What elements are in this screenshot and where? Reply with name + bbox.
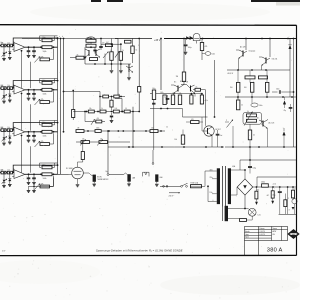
transistor Q32 circle: [204, 126, 214, 136]
trimmer P1: [35, 56, 41, 62]
diode D11 input clamp: [9, 46, 11, 52]
border frame right: [296, 25, 298, 255]
wire q33 emitter down: [238, 59, 240, 71]
wire row y142: [76, 141, 130, 143]
wire row y121.5: [85, 121, 105, 123]
resistor R60 vertical: [81, 152, 84, 160]
wire tube cathode: [77, 179, 79, 184]
node cluster wires: [84, 57, 86, 59]
resistor R34c vertical: [110, 100, 113, 107]
resistor R20 680: [86, 39, 96, 42]
wire cascade stage 3 a: [21, 135, 23, 172]
wire jack row: [109, 174, 124, 176]
node rail97: [237, 96, 239, 98]
wire row y93.7: [150, 93, 171, 95]
svg-text:4k7: 4k7: [106, 42, 109, 44]
trimmer arrow stage 3: [2, 136, 8, 141]
svg-text:100: 100: [244, 87, 247, 89]
node dome out: [202, 38, 204, 40]
svg-text:Ge (pnp): Ge (pnp): [249, 51, 256, 53]
op-amp U4: [14, 170, 25, 179]
wire bus C join stage3: [63, 131, 65, 133]
diode D31: [190, 36, 193, 40]
svg-text:220: 220: [87, 43, 90, 45]
wire feedback loop stage 1: [40, 36, 55, 40]
jack J3 mains lab: [155, 174, 158, 181]
capacitor C22: [104, 54, 106, 65]
resistor R28: [125, 40, 132, 43]
potentiometer block P30: [243, 113, 262, 125]
ground stage 2 input: [8, 99, 12, 101]
resistor R23: [106, 44, 113, 47]
border frame bottom: [0, 254, 297, 256]
trimmer arrow stage 4: [2, 179, 8, 184]
capacitor C32: [33, 132, 35, 135]
capacitor C42: [33, 174, 35, 177]
capacitor C36 100n ellipse: [205, 52, 211, 56]
svg-text:100: 100: [174, 139, 177, 141]
svg-text:1k: 1k: [294, 188, 296, 190]
trimmer P4: [35, 184, 41, 190]
wire feedback top stage 2: [13, 81, 57, 89]
resistor R41 vertical 47k: [200, 43, 203, 51]
wire row y108: [150, 108, 183, 110]
wire q34 emitter down: [261, 66, 263, 71]
wire stage4 output to tube: [58, 173, 69, 175]
svg-text:Rgk: Rgk: [43, 80, 46, 82]
capacitor C33 ellipse 100n: [251, 103, 258, 107]
wire cascade stage 3 b: [30, 146, 32, 172]
wire feedback bus B: [60, 39, 62, 175]
capacitor C31 1u: [167, 95, 169, 98]
trimmer P21: [115, 51, 120, 58]
wire input net stage 1: [0, 45, 14, 47]
svg-text:10k: 10k: [7, 127, 10, 129]
op-amp U3: [14, 127, 25, 136]
svg-text:1k: 1k: [77, 55, 79, 57]
svg-text:10k: 10k: [89, 108, 92, 110]
svg-text:b: b: [62, 36, 63, 38]
transformer T1 secondary winding: [228, 168, 231, 204]
svg-text:Uy: Uy: [0, 127, 2, 129]
svg-text:10k: 10k: [7, 170, 10, 172]
wire rail y214: [279, 213, 297, 215]
svg-text:47k: 47k: [41, 184, 44, 186]
resistor R55: [247, 114, 257, 117]
diode D30: [186, 36, 189, 40]
resistor R33: [100, 110, 106, 113]
resistor R52 vertical 100: [251, 82, 254, 92]
fuse F1 0.5A: [191, 185, 202, 188]
svg-text:mV: mV: [2, 251, 6, 253]
resistor R34 series: [42, 130, 52, 133]
svg-text:6.01.74: 6.01.74: [260, 234, 265, 236]
node row96: [111, 96, 113, 98]
resistor R51 vertical 150: [237, 82, 240, 92]
wire drop x85: [84, 112, 86, 122]
wire q35 emitter down: [267, 129, 269, 148]
trimmer P2: [35, 99, 41, 105]
capacitor C21: [28, 90, 30, 93]
svg-text:2.01.74: 2.01.74: [260, 231, 265, 233]
svg-text:Uy: Uy: [0, 85, 2, 87]
ground stage 4 clamp: [2, 185, 6, 187]
svg-text:P: P: [226, 120, 227, 122]
resistor R25 vertical: [119, 52, 122, 61]
scan artifact bar top-left: [91, 0, 101, 2]
ground jack J2: [128, 182, 130, 184]
ground stage 1 clamp: [2, 58, 6, 60]
transformer T1 taps labels: [212, 178, 217, 180]
transformer T1 core: [222, 166, 224, 207]
svg-text:47n: 47n: [102, 42, 105, 44]
wire feedback top stage 3: [13, 123, 57, 131]
node rail147: [128, 146, 130, 148]
wire cascade stage 1 b: [30, 62, 32, 88]
resistor R53 vertical: [266, 82, 269, 92]
resistor R46 vertical: [171, 95, 174, 105]
svg-text:BC 107: BC 107: [180, 81, 185, 83]
resistor R54 1k vertical: [237, 100, 240, 110]
ground ladder: [110, 119, 114, 121]
svg-text:150: 150: [230, 87, 233, 89]
resistor R22 1k: [76, 56, 84, 59]
ground tube: [76, 184, 80, 186]
probe bracket symbol: [143, 172, 149, 176]
wire drop x132.5: [132, 39, 134, 47]
svg-text:10k: 10k: [7, 43, 10, 45]
resistor R36: [40, 143, 50, 146]
diode D32 input clamp: [3, 130, 5, 137]
title block dividers: [258, 227, 260, 256]
wire x240 secondary to rail160: [239, 160, 241, 170]
ground stage 3 b: [32, 139, 36, 141]
resistor R56: [247, 119, 257, 122]
wire curl over R20: [87, 37, 95, 39]
svg-text:Ug: Ug: [118, 94, 120, 96]
wire top rail right half: [115, 38, 152, 40]
resistor R46: [40, 185, 50, 188]
svg-text:10n: 10n: [220, 135, 223, 137]
resistor R41: [1, 171, 6, 174]
svg-text:+13v: +13v: [273, 183, 277, 185]
resistor R21: [1, 87, 6, 90]
diode D31 input clamp: [9, 130, 11, 136]
svg-text:100µ: 100µ: [152, 88, 156, 90]
capacitor C35 47u: [290, 104, 292, 107]
resistor R44 series: [42, 173, 52, 176]
node row131: [87, 130, 89, 132]
logo diamond: [288, 229, 300, 238]
svg-text:1k: 1k: [110, 50, 112, 52]
svg-text:100: 100: [115, 108, 118, 110]
capacitor C34 100n to frame: [272, 91, 278, 93]
node feedback stage 3: [55, 120, 58, 122]
svg-text:a: a: [59, 36, 60, 38]
capacitor C41: [28, 174, 30, 177]
resistor R47 vertical: [178, 95, 181, 105]
svg-text:110v: 110v: [210, 192, 213, 194]
title block outline: [245, 227, 288, 241]
ground stage 1 b: [32, 55, 36, 57]
svg-text:1k: 1k: [196, 87, 198, 89]
svg-text:230 V~: 230 V~: [169, 195, 175, 197]
svg-text:680: 680: [257, 190, 260, 192]
wire cascade stage 2 a: [21, 93, 23, 130]
resistor R62 150: [240, 219, 247, 222]
capacitor C40 100u: [249, 160, 251, 166]
svg-text:100k: 100k: [43, 135, 47, 137]
label 230V arrow: [169, 192, 180, 194]
resistor R11: [1, 44, 6, 47]
resistor R31: [1, 129, 6, 132]
capacitor C32 10n: [217, 130, 219, 134]
wire output net stage 2: [25, 89, 58, 91]
svg-text:100n: 100n: [259, 105, 263, 107]
diode D40: [256, 199, 258, 202]
node feedback stage 2: [55, 78, 58, 80]
wire tube anode: [77, 162, 79, 167]
resistor R32: [7, 129, 12, 132]
svg-text:RC 6080: RC 6080: [66, 168, 73, 170]
svg-text:BC107: BC107: [216, 129, 221, 131]
ground stage 4 a: [27, 182, 31, 184]
resistor R40: [99, 141, 108, 144]
wire mains stub: [153, 100, 155, 151]
trimmer arrow stage 2: [2, 94, 8, 99]
wire row y96.5: [100, 96, 125, 98]
svg-text:Uy: Uy: [0, 169, 2, 171]
svg-text:Name: Name: [273, 228, 278, 230]
ground jack J1: [93, 182, 95, 184]
node Rg: [107, 174, 109, 176]
transistor Q35 AC128: [262, 121, 264, 127]
svg-text:380 A: 380 A: [267, 247, 283, 253]
svg-text:+: +: [253, 80, 254, 82]
wire drop x140 long: [138, 39, 140, 87]
resistor R31: [114, 95, 119, 98]
wire feedback bus C: [63, 39, 65, 132]
ground stage 2 b: [32, 97, 36, 99]
wire secondary bottom tap: [231, 194, 237, 196]
resistor R67 vertical: [292, 190, 295, 198]
resistor R24 series: [42, 88, 52, 91]
wire pot drop: [232, 126, 234, 147]
resistor R49 100 vertical: [181, 135, 184, 144]
svg-text:GD 241: GD 241: [272, 59, 278, 61]
svg-text:100µ: 100µ: [188, 47, 192, 49]
resistor R12: [7, 44, 12, 47]
wire x222 drop: [221, 117, 223, 130]
node rail187: [256, 186, 258, 188]
ground cluster b: [120, 60, 122, 70]
resistor R26b vertical: [138, 87, 141, 93]
resistor R47c vertical: [200, 95, 203, 104]
svg-text:100k: 100k: [43, 51, 47, 53]
svg-text:10: 10: [125, 108, 127, 110]
ground stage 4 input: [8, 184, 12, 186]
svg-text:5k: 5k: [247, 111, 249, 113]
wire drop x118: [117, 39, 119, 97]
svg-text:Spannungs-Dekaden mit Röhrenvo: Spannungs-Dekaden mit Röhrenvoltmeter R₁…: [96, 249, 183, 253]
resistor R22: [7, 87, 12, 90]
ground stage 1 a: [27, 55, 31, 57]
resistor R34a: [113, 110, 119, 113]
transistor Q30 diff pair left: [177, 86, 179, 92]
resistor R39: [81, 141, 90, 144]
transistor Q31 diff pair right: [190, 86, 192, 92]
wire feedback loop stage 2: [40, 79, 55, 83]
transistor Q20: [84, 47, 86, 64]
node rail dots: [245, 38, 247, 40]
svg-text:240v: 240v: [210, 170, 213, 172]
wire drop x100: [99, 92, 101, 112]
svg-text:47k: 47k: [41, 141, 44, 143]
node bus top A: [57, 38, 59, 40]
svg-text:6,3 v: 6,3 v: [258, 215, 262, 217]
op-amp U2: [14, 85, 25, 94]
transistor Q34: [265, 58, 267, 64]
transistor Q40 circle: [292, 199, 297, 204]
diode D32: [289, 39, 291, 45]
trimmer arrow P30: [244, 112, 253, 126]
wire input net stage 4: [0, 172, 14, 174]
wire bus x133: [132, 107, 134, 147]
diode D12 input clamp: [3, 46, 5, 53]
svg-text:Rgk: Rgk: [43, 122, 46, 124]
wire rail y147: [108, 146, 224, 148]
wire secondary top tap: [231, 169, 245, 171]
capacitor C23: [111, 113, 113, 116]
wire rail y147 right: [225, 146, 297, 148]
wire feedback top stage 1: [13, 38, 57, 46]
resistor R42 1M vertical: [182, 72, 185, 82]
wire cascade stage 1 a: [21, 51, 23, 88]
svg-text:1k: 1k: [237, 98, 239, 100]
trimmer arrows row142: [80, 140, 86, 146]
svg-text:10: 10: [166, 127, 168, 129]
svg-text:100µ: 100µ: [272, 195, 276, 197]
resistor R65 vertical: [271, 191, 274, 198]
wire q32 base from row117: [205, 117, 207, 126]
wire x287.6 drop: [287, 187, 289, 214]
wire bus x108: [107, 131, 109, 173]
wire row y70: [227, 69, 290, 71]
wire output net stage 4: [25, 173, 58, 175]
node rail147 right: [232, 146, 234, 148]
ground stage 2 a: [27, 97, 31, 99]
svg-text:220v: 220v: [210, 177, 213, 179]
resistor R42: [7, 171, 12, 174]
indicator tube V1: [193, 33, 200, 40]
svg-text:100n: 100n: [276, 89, 280, 91]
wire x250 link: [249, 147, 251, 160]
svg-text:4k: 4k: [253, 135, 255, 137]
transistor Q21: [95, 50, 97, 56]
jack J1 M-DIN: [93, 175, 96, 182]
wire switch feed: [160, 185, 181, 187]
wire primary bottom tap: [204, 186, 206, 201]
ground block4 b: [32, 190, 36, 192]
node feedback stage 4: [55, 162, 58, 164]
border frame top: [0, 24, 297, 27]
ground stage 2 clamp: [2, 100, 6, 102]
scan artifact bar top-center: [107, 0, 123, 2]
svg-text:Rg: Rg: [106, 171, 108, 173]
svg-text:+45 V: +45 V: [154, 39, 161, 42]
wire ladder feed: [64, 91, 101, 93]
svg-text:47k: 47k: [41, 99, 44, 101]
transformer T2 heater winding: [225, 206, 228, 221]
svg-text:4k7: 4k7: [267, 195, 270, 197]
svg-text:47µ: 47µ: [283, 110, 286, 112]
resistor R47b vertical: [190, 95, 193, 104]
trimmer P20: [103, 52, 109, 59]
svg-text:-20,8 V: -20,8 V: [227, 73, 234, 75]
wire bridge plus rail: [253, 186, 297, 188]
resistor R63 250: [262, 184, 269, 187]
diode D42 input clamp: [3, 173, 5, 180]
resistor R21: [86, 44, 96, 47]
diode D41: [272, 198, 274, 201]
svg-text:22k: 22k: [82, 139, 85, 141]
resistor R27: [90, 58, 98, 61]
wire row93.7 ext: [171, 93, 202, 95]
wire output net stage 3: [25, 131, 58, 133]
capacitor C21: [94, 47, 96, 49]
resistor R32: [88, 110, 94, 113]
ground stage 3 clamp: [2, 142, 6, 144]
svg-text:100µ: 100µ: [253, 168, 257, 170]
resistor R26 vertical: [131, 46, 134, 54]
value labels scatter: [59, 36, 296, 200]
trimmer P3: [35, 141, 41, 147]
svg-text:100k: 100k: [160, 92, 164, 94]
svg-text:100n: 100n: [212, 54, 216, 56]
wire row y131 decade chain: [76, 130, 165, 132]
resistor R50b: [259, 76, 268, 79]
svg-text:1k: 1k: [101, 108, 103, 110]
resistor R26: [40, 101, 50, 104]
jack J2 LAB: [127, 174, 130, 181]
diode D41 input clamp: [9, 173, 11, 179]
wire x205.5 to Q32: [205, 90, 207, 117]
wire emitters join: [173, 94, 175, 97]
wire fuse to primary: [202, 185, 206, 187]
resistor R14 series: [42, 46, 52, 49]
svg-text:100k: 100k: [43, 178, 47, 180]
resistor R57 4k vertical: [248, 130, 251, 140]
resistor R44 vertical 100u: [152, 90, 155, 100]
wire rail y177: [257, 176, 297, 178]
capacitor C12: [33, 47, 35, 50]
diode D21 input clamp: [9, 88, 11, 94]
capacitor C41 100u: [279, 187, 281, 191]
node feedback stage 1: [55, 35, 58, 37]
connector V lead: [124, 173, 126, 175]
resistor R43 feedback: [42, 166, 52, 169]
resistor R35: [95, 130, 101, 133]
svg-text:47k: 47k: [205, 46, 208, 48]
svg-text:1µ: 1µ: [164, 97, 166, 99]
wire row117: [183, 116, 208, 118]
wire feedback bus A: [57, 39, 59, 175]
op-amp U1: [14, 43, 25, 52]
wire drop x184: [183, 39, 185, 84]
resistor R66 vertical: [284, 200, 287, 207]
svg-text:22k: 22k: [100, 139, 103, 141]
capacitor C31: [28, 132, 30, 135]
